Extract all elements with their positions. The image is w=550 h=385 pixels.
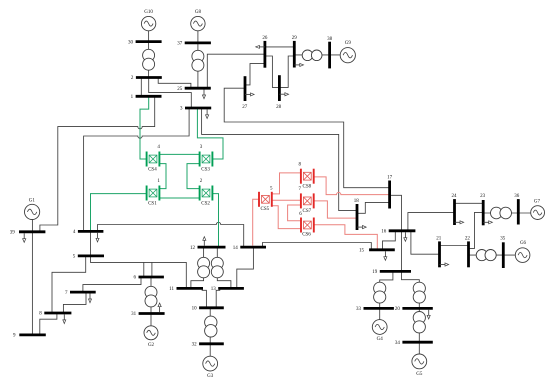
svg-text:G5: G5	[416, 372, 423, 377]
svg-text:38: 38	[327, 37, 333, 42]
svg-text:22: 22	[465, 236, 471, 241]
svg-text:27: 27	[242, 105, 248, 110]
svg-text:CS4: CS4	[148, 167, 157, 172]
svg-text:24: 24	[452, 194, 458, 199]
svg-text:11: 11	[169, 287, 174, 292]
svg-text:29: 29	[292, 36, 298, 41]
svg-text:16: 16	[381, 230, 387, 235]
svg-text:CS5: CS5	[260, 207, 269, 212]
svg-text:26: 26	[262, 36, 268, 41]
svg-text:25: 25	[177, 87, 183, 92]
svg-text:20: 20	[395, 307, 401, 312]
svg-text:G3: G3	[207, 374, 214, 379]
svg-text:19: 19	[372, 270, 378, 275]
svg-text:32: 32	[192, 343, 198, 348]
svg-text:28: 28	[276, 105, 282, 110]
svg-text:12: 12	[190, 246, 196, 251]
svg-text:33: 33	[356, 307, 362, 312]
svg-text:G2: G2	[148, 343, 155, 348]
svg-text:39: 39	[10, 230, 16, 235]
svg-text:G10: G10	[144, 10, 153, 15]
svg-text:CS7: CS7	[302, 209, 311, 214]
svg-text:G9: G9	[345, 41, 352, 46]
svg-text:G7: G7	[534, 199, 541, 204]
svg-text:CS1: CS1	[148, 202, 157, 207]
svg-text:10: 10	[192, 307, 198, 312]
svg-text:G4: G4	[377, 337, 384, 342]
svg-text:CS8: CS8	[302, 184, 311, 189]
svg-text:35: 35	[500, 236, 506, 241]
svg-text:36: 36	[514, 194, 520, 199]
svg-text:23: 23	[480, 194, 486, 199]
svg-text:18: 18	[354, 199, 360, 204]
svg-text:15: 15	[359, 249, 365, 254]
svg-text:CS2: CS2	[201, 202, 210, 207]
svg-text:21: 21	[436, 236, 442, 241]
svg-text:CS6: CS6	[302, 232, 311, 237]
svg-text:G1: G1	[29, 199, 36, 204]
svg-text:CS3: CS3	[201, 167, 210, 172]
svg-text:37: 37	[177, 42, 183, 47]
svg-text:30: 30	[128, 40, 134, 45]
svg-text:14: 14	[233, 246, 239, 251]
svg-text:34: 34	[395, 341, 401, 346]
svg-text:17: 17	[387, 176, 393, 181]
svg-text:31: 31	[131, 312, 137, 317]
svg-text:13: 13	[211, 287, 217, 292]
svg-text:G8: G8	[195, 10, 202, 15]
svg-text:G6: G6	[520, 241, 527, 246]
